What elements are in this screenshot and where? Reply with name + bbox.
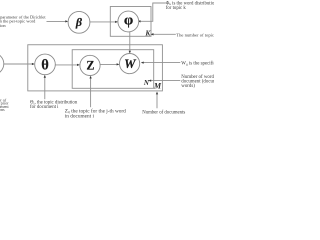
wire M annotation leader [156,94,158,108]
svg-text:The number of topics: The number of topics [176,32,214,37]
svg-text:Z: Z [86,59,94,73]
node Z [80,55,100,75]
arrowhead into W top [129,51,131,54]
arrowhead at theta bottom [44,75,46,78]
svg-text:M: M [153,82,162,91]
wire alpha to theta [4,63,32,65]
svg-text:φ: φ [124,12,133,28]
plate N [72,50,154,89]
arrowhead at beta [65,20,68,22]
wire Z annotation leader [90,78,92,107]
arrowhead at phi right [138,20,141,22]
svg-text:for topic k: for topic k [166,6,187,11]
svg-text:words): words) [181,84,195,89]
wire theta to Z [55,64,77,66]
arrowhead into theta [32,63,35,65]
plate M [28,45,163,91]
arrowhead at M bottom [156,92,158,95]
wire theta annotation leader [44,78,46,100]
wire phi_k annotation elbow [140,3,166,21]
svg-text:β: β [75,15,83,29]
arrowhead at Z bottom [89,76,91,79]
wire W annotation leader [144,62,181,64]
node theta [35,54,56,75]
svg-text:distribution: distribution [0,23,6,28]
wire beta to phi [90,21,115,23]
svg-text:topic distributions: topic distributions [0,107,5,112]
svg-text:θ: θ [41,58,49,74]
node beta [68,11,90,33]
wire beta annotation leader [47,20,66,22]
node W [120,54,140,74]
wire N annotation leader [151,80,180,82]
wire K annotation leader [153,33,176,35]
arrowhead at K [151,33,154,35]
node phi [118,11,139,32]
wire phi to W [129,32,131,51]
svg-text:in document i: in document i [65,113,95,119]
svg-text:N: N [143,79,150,87]
arrowhead at N [148,79,151,81]
arrowhead into Z [77,64,80,66]
plate K [110,7,151,37]
svg-text:K: K [144,29,151,38]
svg-text:for document i: for document i [30,105,59,110]
svg-text:Number of documents: Number of documents [142,110,185,115]
svg-text:W: W [124,57,137,71]
arrowhead at W right [141,61,144,63]
node alpha (cut off at left edge) [0,53,4,75]
arrowhead into phi [115,21,118,23]
wire Z to W [100,63,117,65]
svg-text:Wij is the specific word: Wij is the specific word [181,62,214,67]
arrowhead into W [117,63,120,65]
